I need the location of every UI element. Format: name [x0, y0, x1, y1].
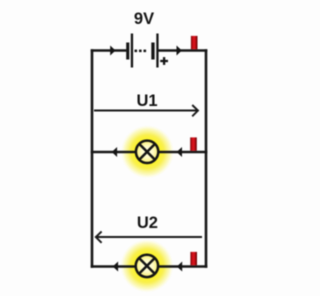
- lamp L1 glow: [121, 126, 173, 178]
- lamp L2 glow: [121, 240, 173, 292]
- wire top left segment: [91, 49, 127, 52]
- svg-text:9V: 9V: [134, 10, 154, 28]
- lamp L1 body: [136, 141, 158, 163]
- battery B1 cell1 long thin plate (+): [131, 34, 133, 68]
- current arrow mid-right (left): [177, 147, 182, 157]
- current arrow bottom-right (left): [177, 262, 182, 272]
- battery B1 cell2 short thick plate (-): [151, 43, 154, 60]
- voltage U1 arrowhead (right): [192, 105, 198, 116]
- current arrow mid-left (left): [112, 147, 117, 157]
- voltage U2 arrowhead (left): [96, 232, 102, 243]
- probe marker bottom: [190, 252, 197, 265]
- battery B1 cell2 long thin plate (+): [156, 34, 158, 68]
- svg-text:U2: U2: [137, 214, 158, 232]
- wire left vertical: [91, 49, 94, 268]
- probe marker top: [191, 36, 198, 49]
- battery plus sign: [160, 57, 168, 65]
- lamp L2 body: [136, 255, 158, 277]
- wire middle horizontal: [91, 151, 208, 154]
- svg-text:U1: U1: [136, 92, 157, 110]
- probe marker middle: [190, 137, 197, 150]
- voltage U1 arrow line: [94, 110, 198, 112]
- wire bottom horizontal: [91, 265, 208, 268]
- battery B1 cell1 short thick plate (-): [126, 43, 129, 60]
- current arrow top-right (right): [177, 46, 182, 56]
- current arrow bottom-left (left): [113, 262, 118, 272]
- current arrow top-left (right): [110, 46, 115, 56]
- voltage U2 arrow line: [96, 236, 202, 238]
- wire right vertical: [205, 49, 208, 268]
- wire top right segment: [158, 49, 207, 52]
- battery B1 dotted link: [135, 50, 138, 53]
